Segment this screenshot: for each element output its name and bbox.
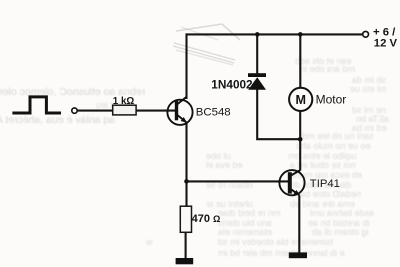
svg-text:BC548: BC548 <box>196 107 231 119</box>
svg-text:12 V: 12 V <box>374 38 398 50</box>
svg-text:1N4002: 1N4002 <box>211 77 253 91</box>
svg-text:M: M <box>296 93 307 107</box>
svg-text:1 kΩ: 1 kΩ <box>113 96 135 107</box>
svg-text:TIP41: TIP41 <box>310 178 340 190</box>
svg-text:470 Ω: 470 Ω <box>192 213 221 225</box>
svg-text:Motor: Motor <box>316 93 347 107</box>
